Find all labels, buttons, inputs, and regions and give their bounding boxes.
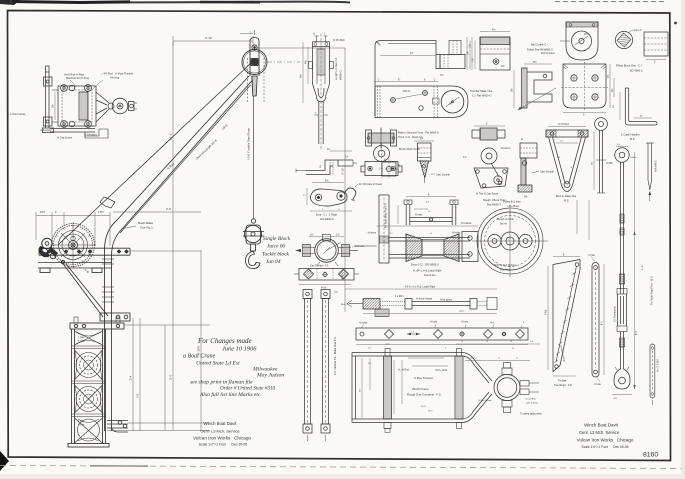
svg-text:⅜: ⅜ xyxy=(461,341,463,343)
svg-text:⅛ Acme thread: ⅛ Acme thread xyxy=(416,298,433,301)
svg-text:Rough One Complete - F.S.: Rough One Complete - F.S. xyxy=(407,393,442,397)
svg-text:⅜: ⅜ xyxy=(521,138,523,141)
svg-text:3'-6: 3'-6 xyxy=(169,375,173,380)
svg-text:⅜: ⅜ xyxy=(315,113,317,115)
svg-text:Drill ⅜ holes: Drill ⅜ holes xyxy=(541,52,556,55)
svg-text:Rough out hole: Rough out hole xyxy=(497,218,515,221)
svg-text:L.L Mch: L.L Mch xyxy=(395,295,404,298)
svg-text:1⅝: 1⅝ xyxy=(336,234,339,237)
svg-text:2⅜: 2⅜ xyxy=(368,363,371,365)
svg-text:Gas Thread - F.S.: Gas Thread - F.S. xyxy=(310,265,329,268)
svg-text:Thrus. C-⅜ - Regd 2-⅜: Thrus. C-⅜ - Regd 2-⅜ xyxy=(398,136,423,139)
svg-text:with ⅜ holes: with ⅜ holes xyxy=(526,402,539,405)
svg-text:1⅝: 1⅝ xyxy=(345,156,348,159)
svg-text:6": 6" xyxy=(398,79,400,82)
svg-text:this bush: this bush xyxy=(500,269,511,272)
svg-text:⅝ hole: ⅝ hole xyxy=(588,254,596,257)
svg-text:Screw ⅜: Screw ⅜ xyxy=(501,147,510,150)
svg-text:3'-10: 3'-10 xyxy=(205,36,212,40)
svg-text:for 1⅜ holes of Crane: for 1⅜ holes of Crane xyxy=(359,183,383,186)
svg-text:4 Chy: 4 Chy xyxy=(78,424,85,427)
svg-text:⅛ Germany: ⅛ Germany xyxy=(84,134,98,137)
svg-text:L.L Point wires: L.L Point wires xyxy=(8,112,26,116)
svg-text:Pillow Block Drw - C.I.: Pillow Block Drw - C.I. xyxy=(616,64,643,68)
svg-text:⅜: ⅜ xyxy=(512,348,514,350)
svg-text:┌⅜ holes: ┌⅜ holes xyxy=(366,232,377,235)
svg-text:for rim: for rim xyxy=(500,223,507,226)
svg-text:6⅝: 6⅝ xyxy=(325,180,328,183)
svg-text:2⅝: 2⅝ xyxy=(420,138,423,141)
svg-text:3'-10: 3'-10 xyxy=(341,168,345,175)
svg-text:⅝⅜: ⅝⅜ xyxy=(613,397,617,400)
svg-text:10½: 10½ xyxy=(40,210,46,214)
svg-text:⅛x⅜ Rod-⅜ Pipe: ⅛x⅜ Rod-⅜ Pipe xyxy=(64,73,85,77)
svg-text:Mch ⅜: Mch ⅜ xyxy=(341,304,348,306)
svg-text:W600-G: W600-G xyxy=(339,70,343,80)
svg-text:Winch Boat Davit: Winch Boat Davit xyxy=(204,421,238,426)
svg-text:Drill ⅜: Drill ⅜ xyxy=(403,90,411,93)
svg-text:M.S.: M.S. xyxy=(564,200,569,203)
svg-text:Machine Std ⅜ long: Machine Std ⅜ long xyxy=(66,76,89,80)
svg-text:Two Regd - F.S.: Two Regd - F.S. xyxy=(554,383,573,387)
svg-text:June 10 1906: June 10 1906 xyxy=(222,346,257,353)
svg-text:This Bar Make One: This Bar Make One xyxy=(470,89,493,93)
svg-text:6⅜: 6⅜ xyxy=(613,105,615,108)
svg-text:Pulley 8x1 hole: Pulley 8x1 hole xyxy=(503,200,521,204)
svg-text:Genl. L3 Mch. Service: Genl. L3 Mch. Service xyxy=(579,430,620,435)
svg-text:Bronze Bush ⅜x1⅜: Bronze Bush ⅜x1⅜ xyxy=(399,148,420,151)
svg-text:⅜: ⅜ xyxy=(384,160,386,162)
svg-text:⅜: ⅜ xyxy=(430,233,432,235)
svg-text:Follow Drw-98 W600-G: Follow Drw-98 W600-G xyxy=(527,49,553,52)
svg-text:1⅝: 1⅝ xyxy=(411,331,414,334)
svg-text:4⅜ long: 4⅜ long xyxy=(110,76,120,80)
svg-text:M2 W60-C: M2 W60-C xyxy=(630,69,643,73)
svg-text:⅜ bolts: ⅜ bolts xyxy=(415,214,423,217)
svg-text:⅜┌5⅜ L.H.& Loads Right: ⅜┌5⅜ L.H.& Loads Right xyxy=(413,270,442,273)
svg-text:Drum-1-C.I. 195 W600-G: Drum-1-C.I. 195 W600-G xyxy=(411,264,439,267)
svg-text:⅝ Rod M.S.: ⅝ Rod M.S. xyxy=(655,160,658,172)
svg-text:⅝ h.: ⅝ h. xyxy=(490,322,495,325)
svg-text:1⅝: 1⅝ xyxy=(463,156,466,159)
svg-text:see shop print in flaman file: see shop print in flaman file xyxy=(190,379,253,386)
svg-text:M.S.: M.S. xyxy=(630,138,635,141)
svg-text:┌⅜x⅜ nuts: ┌⅜x⅜ nuts xyxy=(352,245,365,248)
svg-text:⅜: ⅜ xyxy=(486,341,488,343)
svg-text:1¼ Turnbuckle: 1¼ Turnbuckle xyxy=(614,306,617,322)
svg-text:Davit-Make: Davit-Make xyxy=(138,221,154,225)
svg-text:Cast Smooth: Cast Smooth xyxy=(540,171,554,174)
svg-text:⅝ hole: ⅝ hole xyxy=(594,383,602,386)
svg-text:C.I. Flat W600-G: C.I. Flat W600-G xyxy=(472,94,491,98)
svg-text:1⅛: 1⅛ xyxy=(310,234,313,237)
svg-text:2⅜: 2⅜ xyxy=(449,104,452,106)
svg-text:⅜ blr.: ⅜ blr. xyxy=(321,287,327,290)
svg-text:1⅝: 1⅝ xyxy=(469,45,472,48)
svg-text:2⅝: 2⅝ xyxy=(327,148,330,151)
svg-text:1⅝: 1⅝ xyxy=(617,143,620,146)
svg-text:4 Chy: 4 Chy xyxy=(78,340,85,343)
svg-text:1⅜: 1⅜ xyxy=(501,65,504,68)
svg-text:Cast Smooth: Cast Smooth xyxy=(436,174,450,177)
svg-text:8160: 8160 xyxy=(643,452,658,459)
svg-text:Also full list line Marks etc.: Also full list line Marks etc. xyxy=(199,391,262,398)
svg-text:⅜ Iron Bolt: ⅜ Iron Bolt xyxy=(525,398,536,401)
svg-text:a Boat Crane: a Boat Crane xyxy=(183,354,216,360)
svg-text:⅜ This ⅜ Cap Screw: ⅜ This ⅜ Cap Screw xyxy=(476,193,498,196)
svg-text:Jan 04: Jan 04 xyxy=(266,259,281,265)
svg-text:Tackle block: Tackle block xyxy=(262,252,290,258)
svg-text:3⅝: 3⅝ xyxy=(52,105,55,108)
svg-text:Tie Rods Regd Two - M.S.: Tie Rods Regd Two - M.S. xyxy=(651,276,654,305)
svg-text:Genl. L3 Mch. Service: Genl. L3 Mch. Service xyxy=(200,429,240,434)
svg-text:┌-4⅛ Rod - ⅜ Pipe Thimble: ┌-4⅛ Rod - ⅜ Pipe Thimble xyxy=(101,72,134,76)
svg-text:Length of Jaw 3-4: Length of Jaw 3-4 xyxy=(334,57,338,80)
svg-text:Bolts at hub ⅜ drive: Bolts at hub ⅜ drive xyxy=(494,264,517,267)
svg-text:4'6 ⅜┌⅝ L.H.&. Loads Right: 4'6 ⅜┌⅝ L.H.&. Loads Right xyxy=(405,286,436,289)
svg-text:4½: 4½ xyxy=(606,75,610,78)
svg-text:1¾: 1¾ xyxy=(303,194,306,197)
svg-text:⅝ x 2'-0 M.S.: ⅝ x 2'-0 M.S. xyxy=(657,358,660,372)
svg-text:⅜ buttons: ⅜ buttons xyxy=(461,222,472,225)
svg-text:3⅝: 3⅝ xyxy=(440,74,443,77)
svg-text:Bell Crank-C.I.: Bell Crank-C.I. xyxy=(531,43,549,47)
svg-text:4": 4" xyxy=(640,115,642,118)
svg-text:⅜: ⅜ xyxy=(498,358,500,360)
svg-text:⅜: ⅜ xyxy=(398,165,400,167)
svg-text:⅛ Keyway: ⅛ Keyway xyxy=(40,129,52,132)
svg-text:⅜: ⅜ xyxy=(570,167,572,169)
svg-text:2'3" Vertical Tie - Make One F: 2'3" Vertical Tie - Make One F.S. xyxy=(333,336,337,375)
svg-text:2⅜: 2⅜ xyxy=(557,157,560,159)
svg-text:⅛ bit screw: ⅛ bit screw xyxy=(440,299,452,302)
svg-text:x 1¼ Bore: x 1¼ Bore xyxy=(507,204,519,208)
svg-text:Winch Frame: Winch Frame xyxy=(412,387,429,391)
svg-text:May Judson: May Judson xyxy=(256,373,284,379)
svg-text:Bent to-Make One: Bent to-Make One xyxy=(556,195,577,198)
svg-text:⅜: ⅜ xyxy=(510,341,512,343)
svg-text:⅜ Gas ⅜ pipe: ⅜ Gas ⅜ pipe xyxy=(478,400,492,402)
svg-text:⅜ Mch: ⅜ Mch xyxy=(630,157,637,159)
svg-text:4⅝: 4⅝ xyxy=(426,201,429,204)
svg-text:Tie Bar: Tie Bar xyxy=(558,379,566,383)
svg-text:⅜┌¼┌: ⅜┌¼┌ xyxy=(470,357,477,360)
svg-text:3'-4: 3'-4 xyxy=(129,375,133,380)
svg-text:⅜: ⅜ xyxy=(338,209,340,211)
svg-text:Order # United State #310: Order # United State #310 xyxy=(220,386,276,392)
svg-text:2'-6: 2'-6 xyxy=(166,207,171,211)
svg-text:⅝ hole: ⅝ hole xyxy=(430,321,438,324)
svg-text:1⅝: 1⅝ xyxy=(530,340,533,343)
svg-text:Make to Sponson Truss - Flat W: Make to Sponson Truss - Flat W600-G xyxy=(398,132,439,135)
svg-text:Juice 06: Juice 06 xyxy=(267,244,285,250)
svg-text:2'4⅝: 2'4⅝ xyxy=(545,310,548,315)
svg-text:⅜┌⅜ Rod: ⅜┌⅜ Rod xyxy=(398,369,409,372)
svg-text:⅜ Pipe Traverse: ⅜ Pipe Traverse xyxy=(414,376,433,380)
svg-text:L-Crank Handles: L-Crank Handles xyxy=(621,134,641,137)
svg-text:Drop - C.I. - 1 Regd: Drop - C.I. - 1 Regd xyxy=(316,214,338,217)
svg-text:⅜: ⅜ xyxy=(428,211,430,213)
svg-text:⅜ holes: ⅜ holes xyxy=(452,232,461,235)
svg-text:2⅜: 2⅜ xyxy=(524,196,527,199)
svg-text:Vulcan Iron Works Chicago: Vulcan Iron Works Chicago xyxy=(193,436,251,441)
svg-text:5⅜: 5⅜ xyxy=(592,162,594,165)
svg-text:Flat W600-7: Flat W600-7 xyxy=(487,203,502,207)
svg-text:To clamp lightly when: To clamp lightly when xyxy=(520,413,543,416)
svg-text:⅜ 4⅝ Rod: ⅜ 4⅝ Rod xyxy=(558,123,569,126)
svg-text:13'-6: 13'-6 xyxy=(169,133,173,140)
svg-text:One No.1.: One No.1. xyxy=(140,226,154,230)
svg-text:2⅜: 2⅜ xyxy=(584,33,587,36)
svg-text:16 ⅜: 16 ⅜ xyxy=(421,406,426,408)
svg-text:⅝ holes: ⅝ holes xyxy=(359,322,368,325)
svg-text:⅜: ⅜ xyxy=(516,358,518,360)
svg-text:1⅝: 1⅝ xyxy=(368,347,371,350)
svg-text:3⅝: 3⅝ xyxy=(359,389,362,392)
svg-text:Single Block: Single Block xyxy=(263,236,291,242)
svg-text:Scale 1½"=1 Foot Dec-30-0: Scale 1½"=1 Foot Dec-30-06 xyxy=(199,443,248,447)
svg-text:Scale 1½"=1 Foot Dec 30-0: Scale 1½"=1 Foot Dec 30-06 xyxy=(582,445,629,449)
svg-text:Found line: Found line xyxy=(424,274,436,277)
svg-text:3'-6: 3'-6 xyxy=(136,393,140,398)
svg-text:3⅝: 3⅝ xyxy=(319,165,322,168)
svg-text:For Changes made: For Changes made xyxy=(197,337,252,345)
svg-text:⅝x⅜┌ Rod: ⅝x⅜┌ Rod xyxy=(435,369,448,372)
svg-text:¾"x1 Crucible Steel Rope: ¾"x1 Crucible Steel Rope xyxy=(247,128,251,160)
svg-text:Core 1": Core 1" xyxy=(634,29,643,32)
svg-text:4⅛: 4⅛ xyxy=(492,29,495,32)
svg-text:United State Ld Est: United State Ld Est xyxy=(196,361,240,367)
svg-text:⅜ Mch: ⅜ Mch xyxy=(606,163,614,165)
svg-text:Flat W600-G: Flat W600-G xyxy=(320,218,334,221)
svg-text:1⅝: 1⅝ xyxy=(560,140,563,143)
svg-text:8'-7: 8'-7 xyxy=(635,330,638,335)
svg-text:12": 12" xyxy=(410,52,414,55)
svg-text:Vulcan Iron Works Chicago: Vulcan Iron Works Chicago xyxy=(577,438,634,443)
svg-text:⅝ hole: ⅝ hole xyxy=(461,321,469,324)
svg-text:Winch Boat Davit: Winch Boat Davit xyxy=(584,423,618,428)
svg-text:1'6½: 1'6½ xyxy=(98,210,104,214)
svg-text:Jams: Jams xyxy=(459,311,465,313)
svg-text:⅜ Cap Screw: ⅜ Cap Screw xyxy=(57,137,72,140)
svg-text:⅜ Pin Bolt: ⅜ Pin Bolt xyxy=(333,39,345,42)
